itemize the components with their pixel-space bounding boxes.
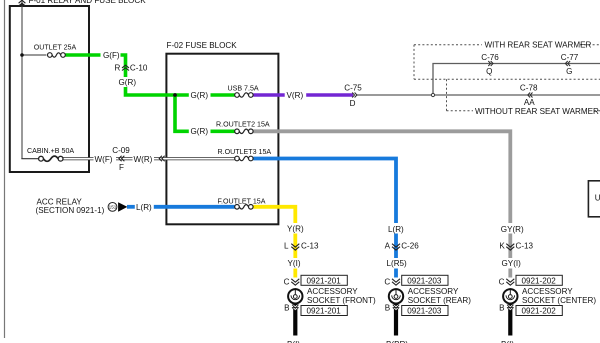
connector at top of F-01 feed (cut) — [19, 0, 26, 6]
dashed box WITH REAR SEAT WARMER — [414, 45, 600, 80]
svg-text:C-78: C-78 — [520, 83, 538, 92]
svg-text:C: C — [284, 277, 290, 286]
reference box 0921-202 top — [516, 275, 562, 285]
wire: blue L(R) from R.OUTLET3 to rear socket — [253, 159, 396, 278]
wire: feed to OUTLET fuse — [22, 54, 46, 56]
svg-text:W(F): W(F) — [95, 155, 113, 164]
ACC relay reference circle — [108, 203, 117, 212]
svg-text:ACCESSORY: ACCESSORY — [408, 287, 459, 296]
svg-text:C: C — [499, 277, 505, 286]
F-01 relay and fuse block box — [10, 6, 89, 172]
junction blob at border crossing — [19, 4, 24, 7]
svg-text:F.OUTLET 15A: F.OUTLET 15A — [218, 197, 266, 205]
svg-text:C-13: C-13 — [301, 241, 319, 250]
svg-text:C-76: C-76 — [481, 53, 499, 62]
reference box 0921-202 bottom — [516, 306, 562, 316]
fuse USB 7.5A — [235, 93, 253, 98]
svg-text:151: 151 — [109, 205, 117, 210]
connector C-10 — [122, 65, 129, 70]
connector C-75 — [352, 93, 357, 98]
wire: W(F)/W(R) white wire from CABIN fuse to R.OUTLET3 fuse — [63, 157, 235, 160]
svg-text:Y(I): Y(I) — [288, 259, 301, 268]
page border — [4, 0, 6, 338]
label halos — [94, 50, 523, 269]
svg-text:WITH REAR SEAT WARMER: WITH REAR SEAT WARMER — [485, 41, 592, 50]
svg-text:SOCKET (FRONT): SOCKET (FRONT) — [307, 296, 376, 305]
accessory socket (front) — [288, 279, 302, 310]
wire: stub to CABIN fuse — [21, 158, 38, 160]
wire: thin net after C-75 — [357, 94, 600, 96]
wire: purple V(R) — [253, 93, 285, 97]
wire: yellow Y(R) from F.OUTLET to front socket — [253, 207, 295, 278]
wire: blue L(R) to F.OUTLET fuse — [154, 205, 235, 209]
connector C-13 front — [291, 244, 299, 250]
dashed branch WITHOUT REAR SEAT WARMER — [447, 79, 600, 111]
svg-text:B: B — [385, 304, 390, 313]
svg-text:C: C — [384, 277, 390, 286]
svg-text:SOCKET (REAR): SOCKET (REAR) — [408, 296, 472, 305]
svg-text:0921-201: 0921-201 — [307, 307, 342, 316]
connector C-09 — [119, 156, 124, 162]
svg-text:GY(R): GY(R) — [501, 225, 524, 234]
wire: black ground wire front socket — [293, 304, 297, 336]
svg-text:F-01 RELAY AND FUSE BLOCK: F-01 RELAY AND FUSE BLOCK — [29, 0, 147, 5]
wire: green branch to R.OUTLET2 — [175, 95, 189, 131]
svg-text:B: B — [499, 304, 504, 313]
fuse R.OUTLET3 15A — [235, 156, 253, 161]
svg-text:G(R): G(R) — [191, 127, 209, 136]
svg-text:C-26: C-26 — [401, 241, 419, 250]
svg-text:0921-202: 0921-202 — [522, 307, 557, 316]
svg-text:L(R5): L(R5) — [387, 259, 408, 268]
svg-text:L(R): L(R) — [388, 225, 404, 234]
fuse CABIN.+B 50A — [39, 156, 63, 161]
ACC relay arrow — [118, 202, 127, 212]
wire: gray GY to center socket — [253, 131, 510, 277]
svg-text:L: L — [284, 241, 289, 250]
junction dot — [20, 53, 24, 57]
svg-text:C-09: C-09 — [112, 146, 130, 155]
svg-text:L(R): L(R) — [136, 203, 152, 212]
wire: black ground wire rear socket — [394, 304, 398, 336]
svg-text:G(R): G(R) — [119, 78, 137, 87]
svg-text:W(R): W(R) — [134, 155, 153, 164]
reference box 0921-203 bottom — [402, 306, 448, 316]
svg-text:C-10: C-10 — [130, 64, 148, 73]
wire: rear seat warmer branch — [433, 64, 600, 96]
connector into F-02 (W wire) — [159, 156, 164, 162]
svg-text:D: D — [350, 99, 356, 108]
fuse OUTLET 25A — [48, 53, 66, 58]
F-02 fuse block box — [166, 54, 278, 225]
wire: black ground wire center socket — [508, 304, 512, 336]
connector C-26 rear — [392, 244, 400, 250]
junction circle at rear seat warmer branch — [431, 93, 434, 96]
fuse F.OUTLET 15A — [235, 205, 253, 210]
svg-text:K: K — [499, 241, 505, 250]
wire: thin vertical feed in F-01 — [21, 0, 23, 159]
reference box 0921-201 top — [301, 275, 347, 285]
svg-text:ACCESSORY: ACCESSORY — [307, 287, 358, 296]
svg-text:R: R — [115, 64, 121, 73]
svg-text:0921-202: 0921-202 — [522, 276, 557, 285]
svg-text:G(F): G(F) — [103, 51, 120, 60]
svg-text:C-13: C-13 — [516, 241, 534, 250]
svg-text:F-02 FUSE BLOCK: F-02 FUSE BLOCK — [167, 41, 238, 50]
svg-text:B: B — [284, 304, 289, 313]
svg-text:C-75: C-75 — [344, 83, 362, 92]
wire: green G(F)/G(R) — [65, 55, 189, 95]
svg-text:OUTLET 25A: OUTLET 25A — [34, 44, 77, 52]
wire: blue stub after ACC relay arrow — [127, 205, 135, 209]
svg-text:A: A — [385, 241, 391, 250]
svg-text:F: F — [119, 163, 124, 172]
svg-text:R.OUTLET2 15A: R.OUTLET2 15A — [216, 121, 270, 129]
svg-text:ACCESSORY: ACCESSORY — [522, 287, 573, 296]
svg-text:U: U — [595, 194, 600, 203]
connector C-78 — [528, 93, 533, 98]
svg-text:0921-203: 0921-203 — [407, 276, 442, 285]
usb unit box (clipped right edge) — [588, 181, 600, 217]
connector C-76 — [488, 61, 493, 66]
connector C-13 center — [506, 244, 514, 250]
svg-text:Y(R): Y(R) — [287, 225, 304, 234]
svg-text:(SECTION 0921-1): (SECTION 0921-1) — [36, 206, 105, 215]
accessory socket (rear) — [389, 279, 403, 310]
svg-text:G(R): G(R) — [191, 91, 209, 100]
fuse R.OUTLET2 15A — [235, 129, 253, 134]
svg-text:GY(I): GY(I) — [502, 259, 522, 268]
svg-text:SOCKET (CENTER): SOCKET (CENTER) — [522, 296, 596, 305]
reference box 0921-203 top — [402, 275, 448, 285]
svg-text:USB 7.5A: USB 7.5A — [228, 85, 259, 93]
svg-text:CABIN.+B 50A: CABIN.+B 50A — [27, 147, 74, 155]
svg-text:G: G — [566, 67, 572, 76]
junction dot green — [173, 93, 177, 97]
svg-text:R.OUTLET3 15A: R.OUTLET3 15A — [218, 148, 272, 156]
svg-text:C-77: C-77 — [561, 53, 579, 62]
connector C-77 — [565, 61, 570, 66]
svg-text:0921-201: 0921-201 — [307, 276, 342, 285]
svg-text:V(R): V(R) — [287, 91, 304, 100]
svg-text:0921-203: 0921-203 — [407, 307, 442, 316]
accessory socket (center) — [503, 279, 517, 310]
svg-text:Q: Q — [486, 67, 492, 76]
reference box 0921-201 bottom — [301, 306, 347, 316]
svg-text:WITHOUT REAR SEAT WARMER: WITHOUT REAR SEAT WARMER — [475, 107, 599, 116]
